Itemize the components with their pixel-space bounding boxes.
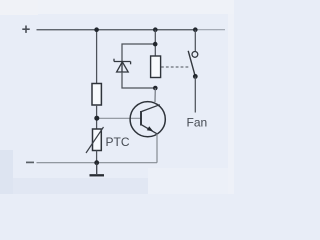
transistor Q1 bbox=[130, 102, 165, 137]
wire: contact to fan bbox=[194, 76, 196, 112]
relay contact: movable arm bbox=[188, 51, 195, 76]
resistor R1 bbox=[92, 84, 101, 106]
dashed mechanical link (relay to contact) bbox=[161, 66, 190, 68]
wire: diode bottom connection bbox=[122, 72, 155, 88]
plus terminal bbox=[22, 26, 29, 33]
wire: relay to transistor collector bbox=[154, 88, 156, 102]
wire: resistor to node bbox=[96, 105, 98, 129]
wire: base wire (node to transistor) bbox=[97, 117, 141, 119]
diode D1 (freewheel across relay coil) bbox=[114, 59, 131, 72]
node: contact bottom terminal bbox=[193, 74, 198, 79]
wire: PTC to bottom rail bbox=[96, 151, 98, 163]
wire: top rail right fade bbox=[197, 29, 225, 31]
wire: resistor branch top bbox=[96, 30, 98, 84]
ground bbox=[90, 163, 105, 176]
thermistor PTC bbox=[86, 127, 104, 153]
wire: bottom rail bbox=[37, 162, 158, 164]
node: diode top junction bbox=[153, 42, 158, 47]
relay coil K1 bbox=[151, 56, 161, 78]
node: top rail / switch branch junction bbox=[193, 27, 198, 32]
svg-text:Fan: Fan bbox=[187, 116, 208, 130]
svg-text:PTC: PTC bbox=[106, 135, 130, 149]
wire: diode top connection bbox=[122, 44, 155, 61]
node: resistor/PTC/base junction bbox=[94, 116, 99, 121]
wire: top rail bbox=[37, 29, 198, 31]
node: diode bottom junction bbox=[153, 86, 158, 91]
relay contact: fixed pole (open circle) bbox=[192, 52, 198, 58]
node: top rail / relay branch junction bbox=[153, 27, 158, 32]
node: top rail / resistor branch junction bbox=[94, 27, 99, 32]
wire: switch branch from top rail bbox=[194, 30, 196, 52]
wire: emitter return bbox=[156, 134, 158, 163]
minus terminal bbox=[26, 161, 34, 163]
node: bottom rail / ground junction bbox=[94, 160, 99, 165]
background base bbox=[0, 0, 234, 194]
wire: relay branch (top rail to relay) bbox=[154, 30, 156, 56]
